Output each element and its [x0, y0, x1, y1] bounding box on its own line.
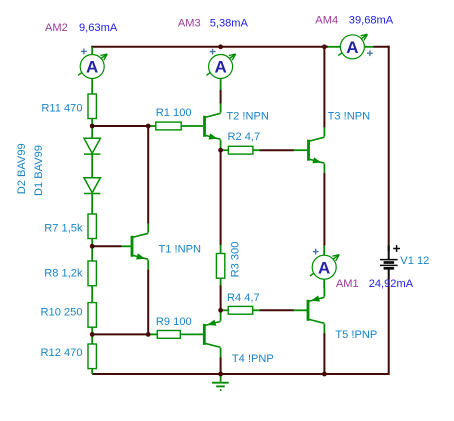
- label R10 250: [41, 306, 83, 318]
- node T5 collector junction: [322, 372, 327, 377]
- transistor T4 PNP: [203, 311, 221, 357]
- wire R4 to T5 base (middle): [260, 309, 294, 311]
- wire node to R1 left stub: [148, 125, 156, 127]
- wire R3 bottom stub: [220, 278, 222, 285]
- node ground junction: [218, 372, 223, 377]
- wire D1 cathode to R7: [91, 194, 93, 215]
- label T1 !NPN: [159, 244, 202, 256]
- transistor T2 NPN: [203, 103, 221, 149]
- label R7 1,5k: [44, 223, 83, 235]
- wire T5 base stub: [294, 309, 307, 311]
- wire top bus right of AM4: [373, 46, 389, 48]
- wire AM4 left stub: [328, 46, 341, 48]
- wire R8 to R10: [91, 286, 93, 304]
- wire bottom ground rail: [92, 373, 389, 375]
- wire T1 base row: [92, 245, 121, 247]
- label D1 BAV99: [33, 145, 45, 196]
- resistor R3: [216, 254, 224, 279]
- resistor R8: [88, 261, 96, 286]
- node R10/R12 junction: [90, 332, 95, 337]
- wire R1 to T2 base: [181, 125, 203, 127]
- wire node R11 bottom to R1 row: [92, 125, 148, 127]
- svg-text:A: A: [318, 258, 330, 277]
- wire T1 emitter vertical: [147, 269, 149, 334]
- wire AM3 bottom stub: [220, 78, 222, 90]
- wire D2 cathode to D1 anode: [91, 155, 93, 179]
- ammeter AM3: [206, 49, 235, 79]
- wire R11 to node stub: [91, 119, 93, 127]
- svg-text:R2 4,7: R2 4,7: [228, 131, 261, 143]
- wire T5 collector to ground rail: [323, 333, 325, 374]
- svg-text:AM3: AM3: [178, 17, 201, 29]
- svg-text:R12 470: R12 470: [41, 347, 83, 359]
- node R7/R8 T1 base junction: [90, 244, 95, 249]
- wire R12 to bottom rail: [91, 369, 93, 375]
- transistor T5 PNP: [307, 287, 325, 333]
- wire top supply bus: [91, 46, 328, 48]
- wire right rail lower (from battery -): [388, 278, 390, 375]
- resistor R2: [228, 146, 253, 154]
- wire R3 to R4 node: [220, 285, 222, 310]
- wire R4 right stub: [253, 309, 260, 311]
- svg-text:R4 4,7: R4 4,7: [227, 292, 260, 304]
- ammeter AM2: [78, 49, 107, 79]
- svg-text:D2 BAV99: D2 BAV99: [16, 143, 28, 194]
- wire R7 to node: [91, 238, 93, 247]
- wire R10 to node: [91, 327, 93, 335]
- label R1 100: [156, 107, 192, 119]
- wire R9 left stub: [148, 333, 157, 335]
- svg-text:T5 !PNP: T5 !PNP: [335, 329, 377, 341]
- node R11/R1 junction: [90, 124, 95, 129]
- svg-text:R3 300: R3 300: [229, 242, 241, 278]
- ammeter AM1: [310, 249, 339, 280]
- svg-text:D1 BAV99: D1 BAV99: [33, 145, 45, 196]
- diode D1: [84, 178, 100, 194]
- svg-text:5,38mA: 5,38mA: [210, 17, 249, 29]
- svg-text:R11 470: R11 470: [41, 102, 82, 114]
- resistor R11: [88, 94, 96, 119]
- svg-text:V1 12: V1 12: [400, 255, 429, 267]
- resistor R7: [88, 214, 96, 239]
- svg-text:R10 250: R10 250: [41, 306, 83, 318]
- label T2 !NPN: [226, 111, 269, 123]
- label T5 !PNP: [335, 329, 377, 341]
- wire node to D2 anode: [91, 126, 93, 139]
- ground: [212, 374, 229, 390]
- resistor R10: [88, 303, 96, 328]
- svg-text:R7 1,5k: R7 1,5k: [44, 223, 83, 235]
- node R9 T1 emitter junction: [146, 332, 151, 337]
- label R3 300: [229, 242, 241, 278]
- label T3 !NPN: [328, 111, 371, 123]
- wire node to R8: [91, 246, 93, 261]
- label AM3: [178, 17, 201, 29]
- resistor R1: [156, 122, 181, 130]
- value AM4 39,68mA: [349, 15, 394, 27]
- label R9 100: [156, 316, 192, 328]
- label R2 4,7: [228, 131, 261, 143]
- svg-text:24,92mA: 24,92mA: [369, 278, 414, 290]
- label R8 1,2k: [44, 268, 83, 280]
- resistor R12: [88, 344, 96, 369]
- svg-text:AM2: AM2: [45, 22, 68, 34]
- svg-text:9,63mA: 9,63mA: [79, 22, 118, 34]
- svg-text:T4 !PNP: T4 !PNP: [232, 353, 274, 365]
- battery V1: [380, 245, 400, 278]
- transistor T3 NPN: [307, 127, 324, 173]
- wire right rail upper (to battery +): [388, 46, 390, 251]
- wire AM1 bottom to T5 emitter: [323, 279, 325, 288]
- svg-text:A: A: [86, 58, 98, 77]
- svg-text:AM1: AM1: [336, 278, 359, 290]
- svg-text:AM4: AM4: [315, 15, 338, 27]
- wire R9 row: [92, 333, 148, 335]
- svg-text:T3 !NPN: T3 !NPN: [328, 111, 371, 123]
- wire R4 left stub: [221, 309, 229, 311]
- svg-text:T1 !NPN: T1 !NPN: [159, 244, 202, 256]
- wire R9 to T4 base: [180, 333, 203, 335]
- wire T2 emitter node to R3: [220, 150, 222, 245]
- wire R2 right stub: [253, 149, 260, 151]
- wire T3 emitter to AM1: [323, 173, 325, 246]
- svg-text:T2 !NPN: T2 !NPN: [226, 111, 269, 123]
- wire T4 collector to ground rail: [220, 357, 222, 374]
- wire AM2 top stub: [91, 47, 93, 55]
- svg-text:A: A: [346, 38, 358, 57]
- wire AM1 top stub: [323, 246, 325, 256]
- wire R3 top stub: [220, 245, 222, 254]
- wire T1 collector vertical: [147, 126, 149, 224]
- label AM4: [315, 15, 338, 27]
- node R3/R4 T4 emitter junction: [218, 308, 223, 313]
- svg-text:R8 1,2k: R8 1,2k: [44, 268, 83, 280]
- label T4 !PNP: [232, 353, 274, 365]
- label D2 BAV99: [16, 143, 28, 194]
- ammeter AM4: [338, 34, 373, 59]
- value AM1 24,92mA: [369, 278, 414, 290]
- wire R2 left stub: [221, 149, 229, 151]
- resistor R4: [228, 306, 253, 314]
- svg-text:39,68mA: 39,68mA: [349, 15, 394, 27]
- resistor R9: [157, 331, 180, 339]
- wire top bus to T3 collector: [323, 47, 325, 128]
- diode D2: [84, 138, 100, 154]
- wire T1 base stub: [122, 245, 131, 247]
- label R12 470: [41, 347, 83, 359]
- node T2 emitter R2 junction: [218, 148, 223, 153]
- wire R2 to T3 base (middle): [260, 149, 294, 151]
- value AM3 5,38mA: [210, 17, 249, 29]
- label R4 4,7: [227, 292, 260, 304]
- label R11 470: [41, 102, 82, 114]
- label AM2: [45, 22, 68, 34]
- wire AM4 right stub: [364, 46, 373, 48]
- label V1 12: [400, 255, 429, 267]
- wire T3 base stub: [294, 149, 308, 151]
- node AM4 branch junction: [322, 44, 327, 49]
- wire AM3 to T2 collector: [220, 90, 222, 104]
- transistor T1 NPN: [131, 223, 149, 269]
- wire node to R12: [91, 334, 93, 344]
- svg-text:A: A: [214, 58, 226, 77]
- value AM2 9,63mA: [79, 22, 118, 34]
- wire AM2 to R11 stub: [91, 78, 93, 94]
- node R1 row T1 collector junction: [146, 124, 151, 129]
- label AM1: [336, 278, 359, 290]
- svg-text:R9 100: R9 100: [156, 316, 192, 328]
- svg-text:R1 100: R1 100: [156, 107, 192, 119]
- node AM3 top junction: [218, 44, 223, 49]
